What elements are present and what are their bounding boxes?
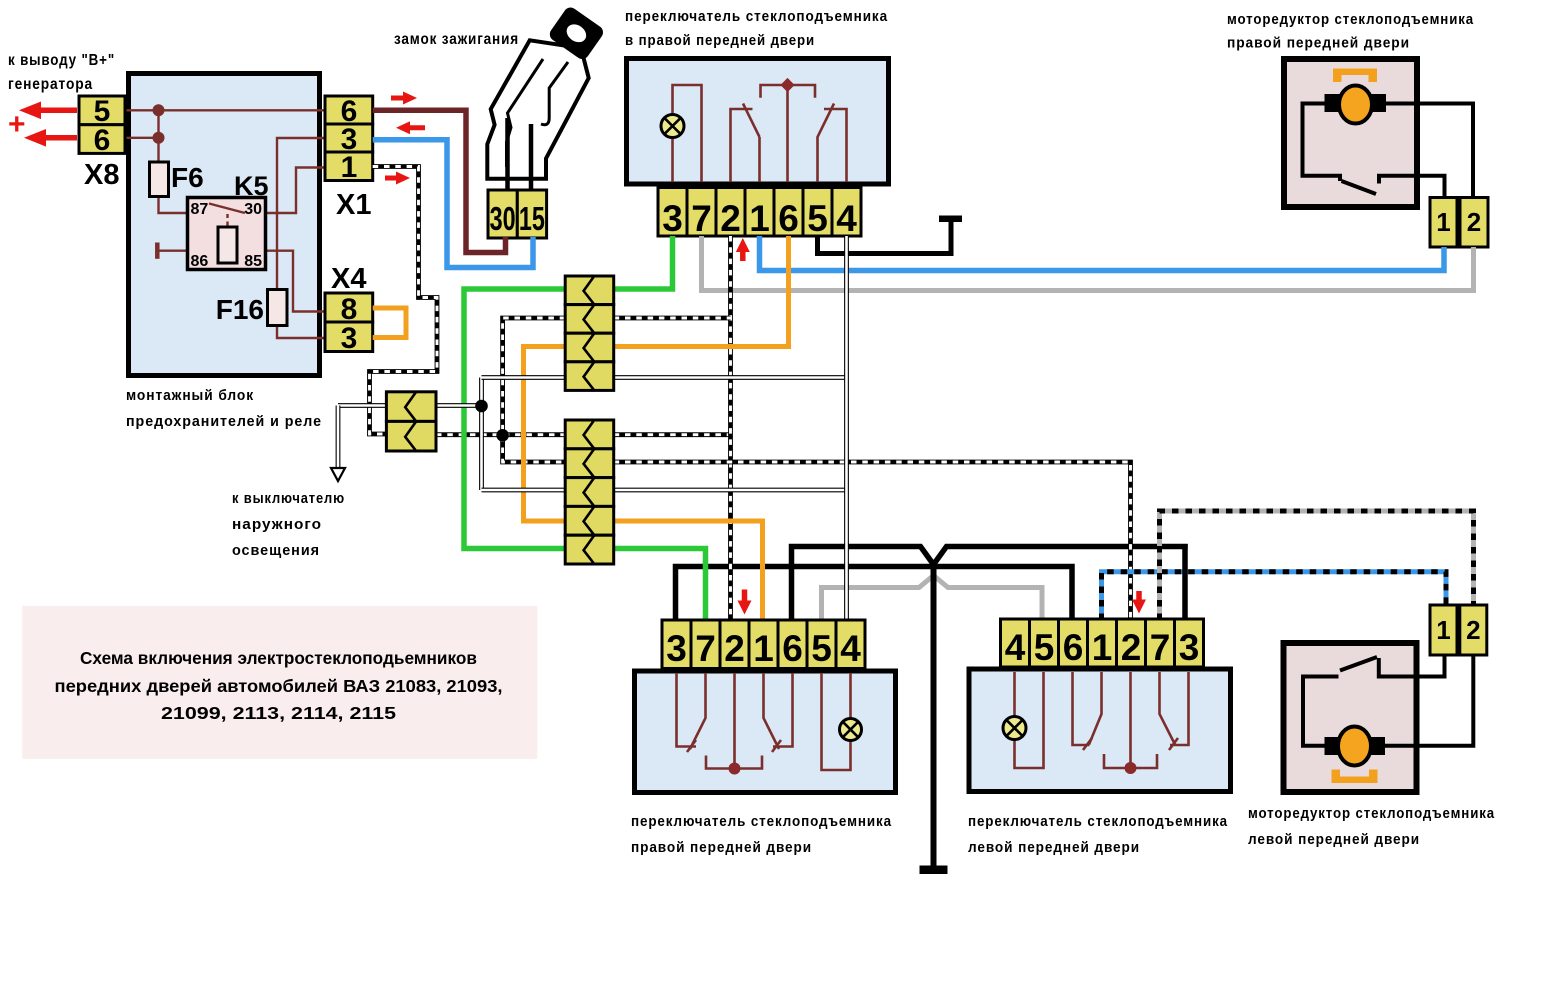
motor brush terminals xyxy=(1325,94,1340,112)
wire F16 to X4.3 xyxy=(277,326,325,339)
brown wire X1.6 to ignition 30 xyxy=(373,110,506,252)
svg-text:F16: F16 xyxy=(216,294,264,325)
dashed wire X1.1 to connector pair xyxy=(370,167,438,435)
svg-text:наружного: наружного xyxy=(232,516,322,533)
key inner outline xyxy=(507,59,544,167)
red arrow right of X1.1 xyxy=(385,176,398,181)
top switch contact pins2-1 xyxy=(731,109,753,182)
svg-text:30: 30 xyxy=(244,201,262,218)
dashed wire lower stack cell2 to right switch pin2 xyxy=(614,462,1131,620)
svg-text:5: 5 xyxy=(811,628,832,669)
connector X8 xyxy=(79,96,125,125)
top switch lamp xyxy=(661,115,684,138)
motor connector bracket xyxy=(1333,69,1377,83)
fuse/relay mounting block xyxy=(129,74,320,376)
body terminal T-bar xyxy=(939,216,962,223)
svg-text:переключатель стеклоподъемника: переключатель стеклоподъемника xyxy=(631,813,892,830)
red arrow to generator (pin 5) xyxy=(38,108,77,114)
junction dot 2 xyxy=(153,132,165,144)
dashed vertical top pin2 to bottom-left pin2 xyxy=(728,236,733,620)
key contact prongs xyxy=(505,118,510,190)
svg-text:моторедуктор стеклоподъемника: моторедуктор стеклоподъемника xyxy=(1248,805,1495,822)
svg-text:1: 1 xyxy=(1436,207,1450,237)
bl-switch internals contact 1-6 xyxy=(764,673,780,749)
wire F6 to K5 pin 87 xyxy=(159,197,208,214)
K5 coil xyxy=(218,227,237,263)
dashed wire pair to vertical riser (via stack cell 1) xyxy=(436,432,565,437)
svg-text:3: 3 xyxy=(666,628,687,669)
ignition key body xyxy=(487,40,588,179)
connector stack upper (4-cell) xyxy=(565,276,614,305)
top switch contact pins5-4 xyxy=(818,104,835,183)
red arrow left of X1.3 xyxy=(408,125,425,130)
svg-text:7: 7 xyxy=(1150,627,1171,668)
svg-text:3: 3 xyxy=(341,322,358,355)
svg-text:87: 87 xyxy=(191,201,209,218)
svg-text:21099, 2113, 2114, 2115: 21099, 2113, 2114, 2115 xyxy=(161,703,396,723)
gray wire bottom-left pin5 to bottom-right pin5 with hop xyxy=(822,576,1043,621)
svg-text:3: 3 xyxy=(1179,627,1200,668)
svg-text:3: 3 xyxy=(662,198,683,239)
svg-text:6: 6 xyxy=(778,198,799,239)
svg-text:освещения: освещения xyxy=(232,542,320,559)
ignition pins 30 15 xyxy=(488,190,517,238)
svg-text:монтажный блок: монтажный блок xyxy=(126,387,254,404)
motor armature xyxy=(1339,86,1372,124)
svg-text:генератора: генератора xyxy=(8,76,93,93)
white wire to exterior-light switch with arrow xyxy=(338,403,482,408)
blue dashed wire right switch pin1 to left motor pin1 xyxy=(1102,572,1447,620)
svg-text:4: 4 xyxy=(840,628,861,669)
orange wire top pin6 through connectors to bottom-left pin1 xyxy=(524,236,789,620)
blue wire switch pin1 to motor pin1 xyxy=(760,236,1445,271)
svg-text:2: 2 xyxy=(724,628,745,669)
red arrow right of X1.6 xyxy=(391,96,406,101)
svg-text:X8: X8 xyxy=(84,159,119,191)
br-switch contact 6-1 xyxy=(1073,672,1090,745)
svg-text:2: 2 xyxy=(720,198,741,239)
svg-text:правой передней двери: правой передней двери xyxy=(1227,35,1410,52)
K5 switch blade xyxy=(209,204,245,214)
svg-text:5: 5 xyxy=(807,198,828,239)
svg-text:86: 86 xyxy=(191,253,209,270)
top switch internals: lamp branch pin3-pin7 xyxy=(673,85,702,182)
white wire top pin4 to bottom-left pin4 xyxy=(844,236,849,620)
dashed branch upper stack cell2 xyxy=(614,316,731,321)
bl-switch common pin2 with bracket xyxy=(733,673,736,769)
motor switch blade xyxy=(1342,181,1377,194)
svg-text:замок зажигания: замок зажигания xyxy=(394,31,519,48)
black ground wire lower: left pin3 to right pin6 xyxy=(676,567,1073,621)
fuse F6 xyxy=(150,162,169,197)
svg-text:2: 2 xyxy=(1466,615,1480,645)
svg-text:к выводу "В+": к выводу "В+" xyxy=(8,52,115,69)
svg-text:6: 6 xyxy=(1063,627,1084,668)
svg-text:левой передней двери: левой передней двери xyxy=(1248,831,1420,848)
red arrow to generator (pin 6) xyxy=(43,135,77,141)
black wire riser to right switch pin3 xyxy=(1182,544,1188,620)
bottom motor connector bracket xyxy=(1332,770,1378,784)
bottom motor switch blade xyxy=(1340,657,1377,671)
K5 coil dashed link xyxy=(226,214,228,227)
svg-text:правой передней двери: правой передней двери xyxy=(631,839,812,856)
connector pair (2-cell) xyxy=(386,392,436,422)
connector X4 xyxy=(325,293,373,322)
bottom-left pin row 3 7 2 1 6 5 4 xyxy=(662,620,691,669)
top switch pin row 3 7 2 1 6 5 4 xyxy=(658,188,687,237)
svg-text:1: 1 xyxy=(341,151,358,184)
svg-text:2: 2 xyxy=(1467,207,1481,237)
bl-switch internals contact 3-7 xyxy=(677,673,697,747)
svg-text:1: 1 xyxy=(753,628,774,669)
wire X8.6 to junction xyxy=(125,137,159,139)
junction dot 1 xyxy=(153,104,165,116)
right front door window switch body xyxy=(627,59,889,185)
connector X1 xyxy=(325,96,373,124)
svg-text:2: 2 xyxy=(1121,627,1142,668)
left door motor body xyxy=(1284,643,1417,792)
key head xyxy=(547,5,606,62)
svg-text:6: 6 xyxy=(782,628,803,669)
motor pins 1 2 xyxy=(1430,198,1457,248)
svg-text:переключатель стеклоподъемника: переключатель стеклоподъемника xyxy=(968,813,1228,830)
green wire top pin3 through connectors to bottom-left pin7 xyxy=(464,236,706,620)
white wire lower stack cell3 branch xyxy=(482,488,847,493)
right door switch body (in-door) xyxy=(635,671,896,793)
svg-text:передних дверей автомобилей ВА: передних дверей автомобилей ВАЗ 21083, 2… xyxy=(55,676,503,696)
wire X1.3 to F16 xyxy=(277,138,325,290)
svg-text:X1: X1 xyxy=(336,189,371,221)
junction dot white net xyxy=(475,400,488,413)
svg-text:левой передней двери: левой передней двери xyxy=(968,839,1140,856)
svg-text:+: + xyxy=(8,108,26,141)
svg-text:30: 30 xyxy=(490,200,516,237)
svg-text:85: 85 xyxy=(244,253,262,270)
svg-text:1: 1 xyxy=(1092,627,1113,668)
bottom motor armature xyxy=(1338,727,1371,766)
br-switch lamp branch pins 4-5 xyxy=(1013,672,1016,717)
black ground wire upper: left pin6 to right pin3 with X node xyxy=(792,547,1188,621)
wire junction down to F6 xyxy=(157,110,159,162)
svg-text:предохранителей и реле: предохранителей и реле xyxy=(126,413,322,430)
bottom motor brush terminals xyxy=(1325,737,1340,755)
svg-text:K5: K5 xyxy=(234,171,269,201)
bottom-right pin row 4 5 6 1 2 7 3 xyxy=(1001,619,1030,667)
svg-text:X4: X4 xyxy=(331,263,366,295)
wire K5 85/86 row to X4.8 xyxy=(157,251,325,312)
svg-text:7: 7 xyxy=(691,198,712,239)
motor internal wires xyxy=(1303,104,1341,182)
svg-text:моторедуктор стеклоподъемника: моторедуктор стеклоподъемника xyxy=(1227,11,1474,28)
bl-switch lamp branch pins 5-4 xyxy=(822,673,851,770)
schema caption box xyxy=(22,606,537,759)
fuse F16 xyxy=(268,290,288,326)
terminal T-bar at K5 86 xyxy=(155,243,160,259)
red down arrow at bottom-right pin2 xyxy=(1136,591,1142,601)
svg-text:15: 15 xyxy=(519,200,545,237)
orange loop X4.8 to X4.3 xyxy=(373,308,406,338)
svg-text:1: 1 xyxy=(1436,615,1450,645)
white wire upper stack cell4 branch xyxy=(482,375,847,380)
red down arrow at bottom-left pin2 xyxy=(742,590,748,602)
right door motor body xyxy=(1284,59,1417,207)
connector stack lower (5-cell) xyxy=(565,420,614,449)
svg-text:4: 4 xyxy=(1005,627,1026,668)
top switch common bar with node xyxy=(761,85,816,98)
svg-text:5: 5 xyxy=(1034,627,1055,668)
svg-text:Схема включения электростеклоп: Схема включения электростеклоподьемников xyxy=(80,648,477,668)
svg-text:1: 1 xyxy=(749,198,770,239)
wire X8.5 to X1.6 xyxy=(125,109,325,111)
ground bar xyxy=(920,866,948,875)
br-switch common pin2 with bracket xyxy=(1129,672,1132,768)
gray wire switch pin7 to motor pin2 xyxy=(702,236,1474,291)
white wire riser at junction xyxy=(479,378,484,491)
svg-text:4: 4 xyxy=(836,198,857,239)
gray dashed wire right switch pin7 to left motor pin2 xyxy=(1160,511,1474,620)
bottom motor pins 1 2 xyxy=(1430,605,1457,655)
svg-text:в правой передней двери: в правой передней двери xyxy=(625,32,815,49)
relay K5 xyxy=(188,198,266,270)
left door switch body xyxy=(969,669,1231,792)
ground stem xyxy=(931,564,937,866)
svg-text:F6: F6 xyxy=(171,162,204,193)
blue wire X1.3 to ignition 15 xyxy=(373,140,533,268)
black wire switch pin5 to body terminal xyxy=(818,222,952,254)
bottom motor internal wires xyxy=(1379,655,1445,677)
red up arrow at top switch pin2 xyxy=(740,250,746,261)
junction dot dashed net xyxy=(496,429,509,442)
svg-text:к выключателю: к выключателю xyxy=(232,490,345,507)
br-switch contact 7-3 xyxy=(1160,672,1176,745)
svg-text:6: 6 xyxy=(94,124,111,157)
svg-text:переключатель стеклоподъемника: переключатель стеклоподъемника xyxy=(625,8,888,25)
wire K5 pin 30 to X1.1 xyxy=(244,168,325,214)
svg-text:7: 7 xyxy=(695,628,716,669)
